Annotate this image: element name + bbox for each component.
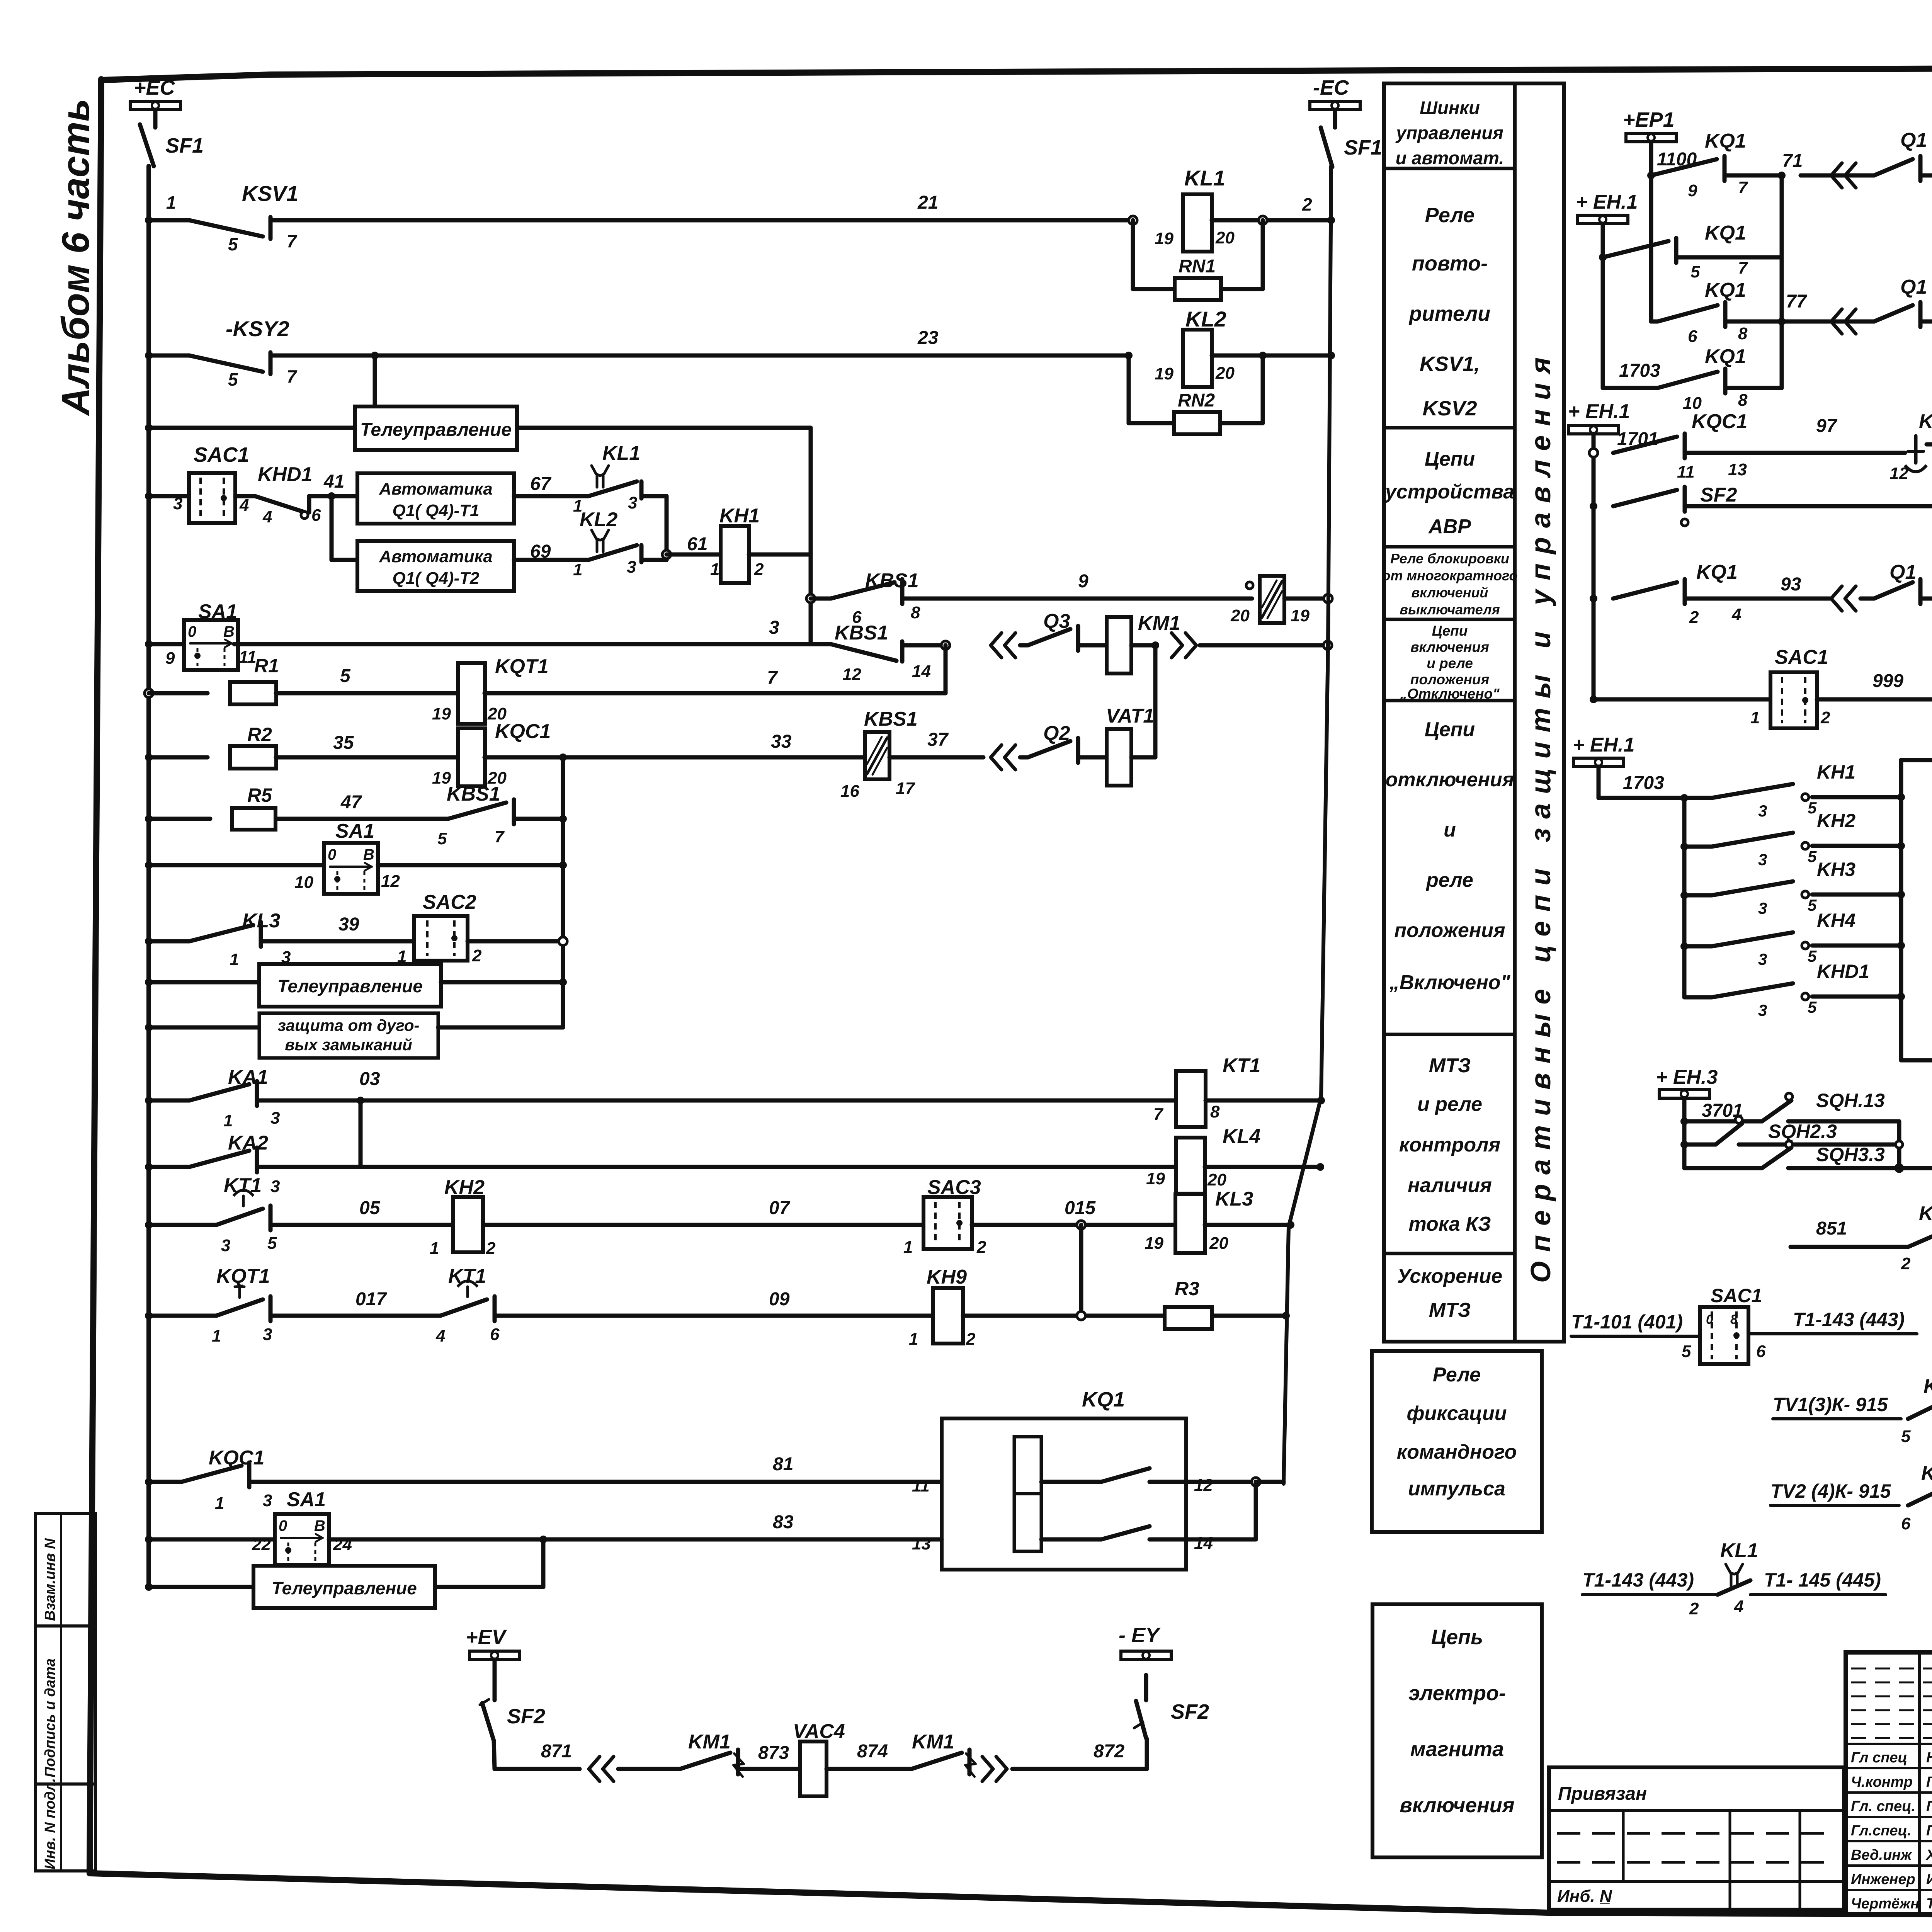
svg-text:KT1: KT1 [1223,1054,1260,1077]
svg-text:контроля: контроля [1399,1134,1500,1156]
svg-text:VAT1: VAT1 [1106,705,1154,727]
svg-text:8: 8 [911,603,920,622]
svg-text:SF1: SF1 [165,134,204,157]
svg-text:В: В [314,1517,325,1534]
svg-text:Альбом 6 часть: Альбом 6 часть [54,99,97,417]
breaker SF1 left [153,110,158,128]
svg-text:19: 19 [1145,1234,1163,1253]
svg-text:6: 6 [1756,1342,1766,1361]
svg-text:1703: 1703 [1623,773,1664,793]
svg-text:8: 8 [1210,1102,1220,1121]
svg-text:Автоматика: Автоматика [379,547,493,566]
svg-text:1: 1 [166,192,176,213]
svg-text:+ EH.1: + EH.1 [1573,734,1634,756]
node KSY2 to remote-control box [371,352,379,359]
svg-text:9: 9 [1078,571,1088,592]
svg-text:SAC2: SAC2 [423,891,476,913]
svg-text:Иванова: Иванова [1926,1871,1932,1888]
page frame left border [90,79,101,1873]
svg-text:отключения: отключения [1386,769,1514,791]
svg-text:13: 13 [1728,460,1747,479]
svg-text:KL4: KL4 [1223,1125,1260,1148]
svg-text:20: 20 [1215,364,1235,383]
svg-text:12: 12 [1889,464,1908,483]
svg-text:KH9: KH9 [927,1266,967,1288]
svg-text:3: 3 [270,1177,280,1196]
svg-text:Реле: Реле [1425,204,1475,227]
svg-text:KL1: KL1 [1720,1539,1758,1562]
svg-text:3: 3 [1758,899,1767,917]
svg-text:Взам.инв N: Взам.инв N [42,1538,58,1621]
svg-text:2: 2 [1689,1599,1699,1618]
svg-text:21: 21 [917,192,938,213]
svg-text:2: 2 [486,1239,496,1258]
wire 015 with node down [972,1223,1175,1227]
svg-text:SQH2.3: SQH2.3 [1768,1121,1837,1142]
wire KL4 to bus [1205,1165,1320,1169]
svg-text:ТV1(3)К- 915: ТV1(3)К- 915 [1773,1394,1888,1415]
svg-text:KH4: KH4 [1817,910,1855,931]
svg-text:1: 1 [230,950,239,969]
svg-text:71: 71 [1782,151,1803,171]
svg-text:Пршосова: Пршосова [1926,1798,1932,1815]
svg-text:83: 83 [773,1512,794,1532]
wire VAT1 to KM1 node line [1131,755,1155,760]
wire 81 [249,1480,942,1484]
contact SQH3.3 [1786,1141,1793,1148]
svg-text:5: 5 [228,369,238,389]
node KBS1 rung 9 [806,594,815,603]
contact KM1 close [618,1767,680,1771]
node 71 [1725,173,1782,178]
contactor coil KM1 [1078,643,1107,648]
svg-text:-EC: -EC [1313,76,1349,99]
svg-text:R2: R2 [247,724,272,745]
contact KH4 [1684,944,1712,949]
contact KH2 [1684,845,1712,849]
svg-text:SF1: SF1 [1344,136,1382,159]
box Автоматика Q1(Q4)-Т2 [332,558,357,562]
wire to telecontrol box [149,426,355,430]
wire 873 [738,1767,800,1771]
svg-text:6: 6 [490,1325,500,1344]
right bus of left ladder [1284,166,1331,1484]
svg-text:SF2: SF2 [1700,484,1737,506]
svg-text:77: 77 [1786,291,1808,312]
svg-text:„Включено": „Включено" [1389,971,1511,994]
svg-text:3: 3 [1758,850,1767,869]
svg-text:Ч.контр: Ч.контр [1851,1774,1913,1790]
svg-text:KM1: KM1 [1138,612,1180,634]
svg-text:8: 8 [1738,391,1748,410]
wire 5 [276,691,458,696]
svg-text:+ EH.3: + EH.3 [1656,1066,1718,1088]
svg-text:KBS1: KBS1 [864,708,918,730]
resistor R1 [149,691,207,696]
svg-text:Цепи: Цепи [1432,623,1468,639]
node on bus KQC1 rung 81 [145,1478,153,1486]
svg-text:2: 2 [1689,608,1699,627]
svg-text:8: 8 [1738,324,1748,343]
svg-text:05: 05 [359,1198,381,1218]
svg-text:5: 5 [437,829,447,848]
wire 47 [276,817,448,821]
node to rung 7 [941,641,950,650]
svg-text:KM1: KM1 [912,1731,954,1753]
wire 871 [494,1741,495,1769]
svg-text:4: 4 [239,496,249,515]
svg-text:7: 7 [287,231,298,251]
svg-text:5: 5 [1808,847,1817,866]
svg-text:Оперативные цепи защиты и: Оперативные цепи защиты и управления [1526,348,1556,1283]
box Телеуправление 1 [355,406,517,450]
svg-text:тока КЗ: тока КЗ [1408,1213,1491,1235]
svg-text:1: 1 [212,1327,221,1345]
svg-text:KH2: KH2 [1817,810,1855,832]
breaker SF2 left [493,1660,497,1700]
svg-text:3: 3 [1758,1001,1767,1019]
svg-text:KQ1: KQ1 [1705,345,1746,368]
svg-text:999: 999 [1872,671,1903,691]
switch SAC1 [189,473,235,523]
wire 1703 to KH ladder [1599,796,1684,800]
svg-text:SQH3.3: SQH3.3 [1816,1144,1885,1165]
svg-text:6: 6 [1901,1514,1911,1533]
svg-text:14: 14 [912,662,931,681]
svg-text:5: 5 [1690,262,1700,281]
svg-text:1703: 1703 [1619,361,1660,381]
node on bus SAC1 rung [145,492,153,500]
svg-text:Гл.спец.: Гл.спец. [1851,1823,1912,1839]
svg-text:KT1: KT1 [448,1265,486,1287]
svg-text:10: 10 [294,873,313,892]
node on bus KT1 rung [145,1221,153,1229]
svg-text:2: 2 [472,946,482,965]
svg-text:3: 3 [263,1325,272,1344]
wire telecontrol to corner [517,426,811,430]
svg-text:командного: командного [1397,1441,1517,1463]
svg-text:В: В [363,846,374,863]
svg-text:Цепь: Цепь [1431,1626,1483,1649]
svg-text:23: 23 [917,328,939,348]
svg-text:от многократного: от многократного [1382,568,1518,583]
svg-text:R5: R5 [247,784,272,806]
svg-text:14: 14 [1194,1534,1213,1553]
wire KL3 to bus [1205,1223,1291,1227]
svg-text:выключателя: выключателя [1400,602,1500,617]
closing coil VAC4 [800,1742,827,1796]
contact KBS1 (6-8) [811,597,831,601]
resistor RN2 parallel branch [1127,355,1131,423]
supply +EP1 [1626,133,1676,142]
supply +EH.1 second [1578,215,1628,224]
svg-text:положения: положения [1410,672,1490,687]
svg-text:5: 5 [1808,799,1817,817]
svg-text:20: 20 [1209,1234,1228,1253]
svg-text:4: 4 [262,507,272,526]
contact KBS1 (12-14) [811,642,831,646]
KQ1 internal coil [1014,1437,1041,1551]
svg-text:Q2: Q2 [1043,722,1070,745]
svg-text:7: 7 [287,366,298,386]
svg-text:19: 19 [1155,364,1173,383]
svg-text:9: 9 [1688,181,1697,200]
svg-text:6: 6 [311,506,321,525]
svg-text:6: 6 [1688,327,1697,346]
wire to right bus [1131,643,1155,648]
switch SAC3 [923,1197,972,1249]
vertical link wire x2098 [809,428,813,644]
wire 872 [1012,1767,1147,1771]
svg-text:Реле блокировки: Реле блокировки [1390,551,1509,566]
trip coil VAT1 [1078,755,1107,760]
switch SAC2 [414,916,468,961]
svg-text:KQ1: KQ1 [1705,279,1746,301]
svg-text:874: 874 [857,1741,888,1762]
svg-text:9: 9 [165,649,175,668]
svg-text:4: 4 [1734,1597,1743,1616]
binding table dashes [1557,1832,1835,1835]
svg-text:включения: включения [1400,1794,1514,1817]
svg-text:16: 16 [840,782,859,801]
svg-text:1: 1 [909,1330,918,1349]
box защита от дуговых замыканий [259,1013,438,1058]
wire 9 [902,597,1252,601]
svg-text:Чертёжн: Чертёжн [1851,1896,1919,1912]
svg-text:3: 3 [769,617,779,638]
wire to rail [441,980,563,985]
svg-text:871: 871 [541,1741,572,1762]
svg-text:ТV2 (4)К- 915: ТV2 (4)К- 915 [1770,1480,1891,1502]
relay coil KQT1 [458,663,485,724]
contact KHD1 [235,494,255,498]
svg-text:Реле: Реле [1433,1364,1481,1386]
wire KL1 to bus [1212,218,1331,223]
svg-text:3: 3 [1758,950,1767,968]
node on bus rung KSY2 [145,352,153,359]
node on bus arc-protection rung [145,1024,153,1031]
svg-text:10: 10 [1683,394,1702,413]
wire 7 [485,691,946,696]
svg-text:SQH.13: SQH.13 [1816,1090,1885,1111]
svg-text:Q3: Q3 [1043,610,1070,633]
contact KL1 with pickup fork [592,466,609,476]
contact KL3 [149,939,189,944]
svg-text:Q1: Q1 [1900,276,1927,298]
wire 21 [270,218,1133,223]
middle narrow column [1515,83,1564,1342]
svg-text:В: В [223,623,235,640]
svg-text:рители: рители [1408,302,1491,325]
wire KA2 to KL4 [257,1165,1176,1169]
contact Q1 rung71 [1801,173,1874,178]
relay coil KL2 [1183,330,1212,387]
svg-text:„Отключено": „Отключено" [1400,686,1500,702]
svg-text:SAC1: SAC1 [194,443,249,466]
switch SA1 (22-24) [275,1514,329,1565]
svg-text:положения: положения [1394,919,1505,942]
wire 69 to KL2 contact [514,558,588,562]
svg-text:KQT1: KQT1 [1919,410,1932,433]
svg-text:электро-: электро- [1408,1682,1506,1705]
switch SA1 (10-12) [324,843,378,894]
node on bus rung 3 [145,640,153,648]
relay coil KH1 [721,526,749,583]
svg-text:39: 39 [338,914,359,935]
node on bus KL3 rung [145,937,153,945]
node before KL1 [1129,216,1137,224]
contact KSV1 [149,218,189,223]
link to node 71 [1676,255,1782,260]
node on bus R1 rung [145,689,153,697]
svg-text:4: 4 [435,1327,445,1345]
svg-text:0: 0 [1706,1312,1713,1327]
svg-text:KL3: KL3 [242,910,280,932]
svg-text:-KSY2: -KSY2 [226,316,289,341]
svg-text:2: 2 [754,560,764,579]
svg-text:KQ1: KQ1 [1082,1388,1125,1411]
resistor R2 [149,755,207,760]
svg-text:3: 3 [627,558,636,577]
relay coil KQC1 [458,728,485,786]
box KQ1 fixation relay [942,1418,1186,1570]
node before KL2 [1125,352,1133,359]
svg-text:47: 47 [340,792,362,813]
contact KBS1 (5-7) [448,803,506,819]
contact KM1 second [912,1753,962,1769]
svg-text:импульса: импульса [1408,1478,1505,1500]
svg-text:Горелик: Горелик [1926,1774,1932,1790]
contact KQT1 (1-3) with release mark [149,1314,216,1318]
svg-text:7: 7 [1738,178,1748,197]
svg-text:7: 7 [1738,259,1748,277]
svg-text:фиксации: фиксации [1406,1402,1507,1425]
svg-text:19: 19 [432,704,451,723]
svg-text:5: 5 [1901,1427,1911,1446]
wire KT1 to bus [1206,1099,1321,1103]
wire 97 [1685,451,1905,455]
binding table Привязан [1549,1767,1844,1910]
svg-text:37: 37 [927,730,949,750]
svg-text:SAC1: SAC1 [1711,1285,1762,1306]
wire 23 [270,354,1129,358]
svg-text:R3: R3 [1175,1278,1199,1299]
box Автоматика Q1(Q4)-Т1 [357,473,514,524]
svg-text:2: 2 [1302,194,1312,214]
svg-text:7: 7 [1153,1105,1164,1124]
svg-text:67: 67 [530,474,552,494]
resistor RN1 parallel branch [1131,220,1135,289]
svg-text:851: 851 [1816,1218,1847,1239]
svg-text:KSV1: KSV1 [242,181,298,206]
svg-text:МТЗ: МТЗ [1429,1054,1471,1077]
svg-text:SF2: SF2 [507,1705,545,1728]
node on bus R2 rung [145,753,153,761]
svg-text:3: 3 [1758,802,1767,820]
wire 83 [329,1537,942,1542]
svg-text:2: 2 [976,1238,986,1257]
wire 03 with node [257,1099,1176,1103]
svg-text:Q1: Q1 [1900,129,1927,151]
svg-text:12: 12 [842,665,861,684]
KQ1 internal contact 13-14 [1041,1537,1101,1542]
wire 874 [827,1767,912,1771]
svg-text:1: 1 [1750,708,1760,727]
KQ1 internal contact 11-12 [1041,1480,1101,1484]
contact Q1 rung 93 [1861,597,1874,601]
wire to right bus [1284,597,1328,601]
svg-text:и реле: и реле [1427,655,1473,671]
wire 39 [261,939,414,944]
svg-text:KH1: KH1 [1817,761,1855,783]
contact KH3 [1684,893,1712,898]
svg-text:и реле: и реле [1417,1093,1482,1116]
svg-text:KBS1: KBS1 [447,783,500,805]
svg-text:20: 20 [1207,1170,1226,1189]
box Телеуправление 3 [253,1566,435,1608]
svg-text:KQ1: KQ1 [1705,222,1746,244]
resistor R5 [149,817,210,821]
breaker SF1 right [1333,110,1337,128]
svg-text:81: 81 [773,1454,793,1475]
resistor R3 [1165,1307,1212,1329]
svg-text:Телеуправление: Телеуправление [277,976,423,996]
svg-text:SA1: SA1 [335,820,374,842]
relay coil KL1 [1183,194,1212,252]
node on bus SA1 rung 2 [145,861,153,869]
svg-text:Q1( Q4)-Т1: Q1( Q4)-Т1 [393,501,480,520]
supply +EV [469,1651,520,1660]
svg-text:Автоматика: Автоматика [379,480,493,498]
wire 67 to KL1 contact [514,494,588,498]
svg-text:KQC1: KQC1 [209,1447,264,1469]
KQ1 exit wires to bus [1186,1480,1256,1484]
vertical output rail of KH contacts [1899,760,1903,1060]
node 1 on bus [145,216,153,224]
svg-text:KQT1: KQT1 [216,1265,270,1287]
box: Цепь электромагнита включения [1372,1604,1542,1857]
svg-text:KSV2: KSV2 [1422,397,1477,420]
svg-text:и: и [1444,819,1456,841]
middle annotation column frame [1384,83,1515,1342]
contact Q3 [1020,643,1028,648]
svg-text:41: 41 [323,471,344,492]
svg-text:KBS1: KBS1 [865,570,919,592]
contact KQ1 (5-7) [1599,253,1607,261]
wire 99 [1685,504,1932,509]
svg-text:KHD1: KHD1 [1817,961,1869,982]
svg-text:3: 3 [263,1491,272,1510]
contact KQ1 (2-4) rung 93 [1590,595,1597,602]
svg-text:Q1: Q1 [1889,561,1916,583]
chevron in [603,1757,614,1781]
svg-text:Хрипунова: Хрипунова [1925,1847,1932,1863]
svg-text:вых замыканий: вых замыканий [285,1036,412,1054]
svg-text:0: 0 [188,623,196,640]
left rail to 999 rung [1592,599,1596,699]
svg-text:5: 5 [1808,947,1817,965]
svg-text:R1: R1 [254,655,279,677]
contact KT1 (3-5) time [149,1223,216,1227]
wire 999 [1817,697,1932,702]
svg-text:+EP1: +EP1 [1623,108,1675,131]
lamp HLW1 rung [1901,1058,1932,1063]
svg-text:Привязан: Привязан [1558,1784,1647,1804]
svg-text:KH3: KH3 [1817,859,1855,880]
contact -KSY2 [149,354,189,358]
wire to join node [641,494,667,498]
svg-text:19: 19 [1291,606,1310,625]
